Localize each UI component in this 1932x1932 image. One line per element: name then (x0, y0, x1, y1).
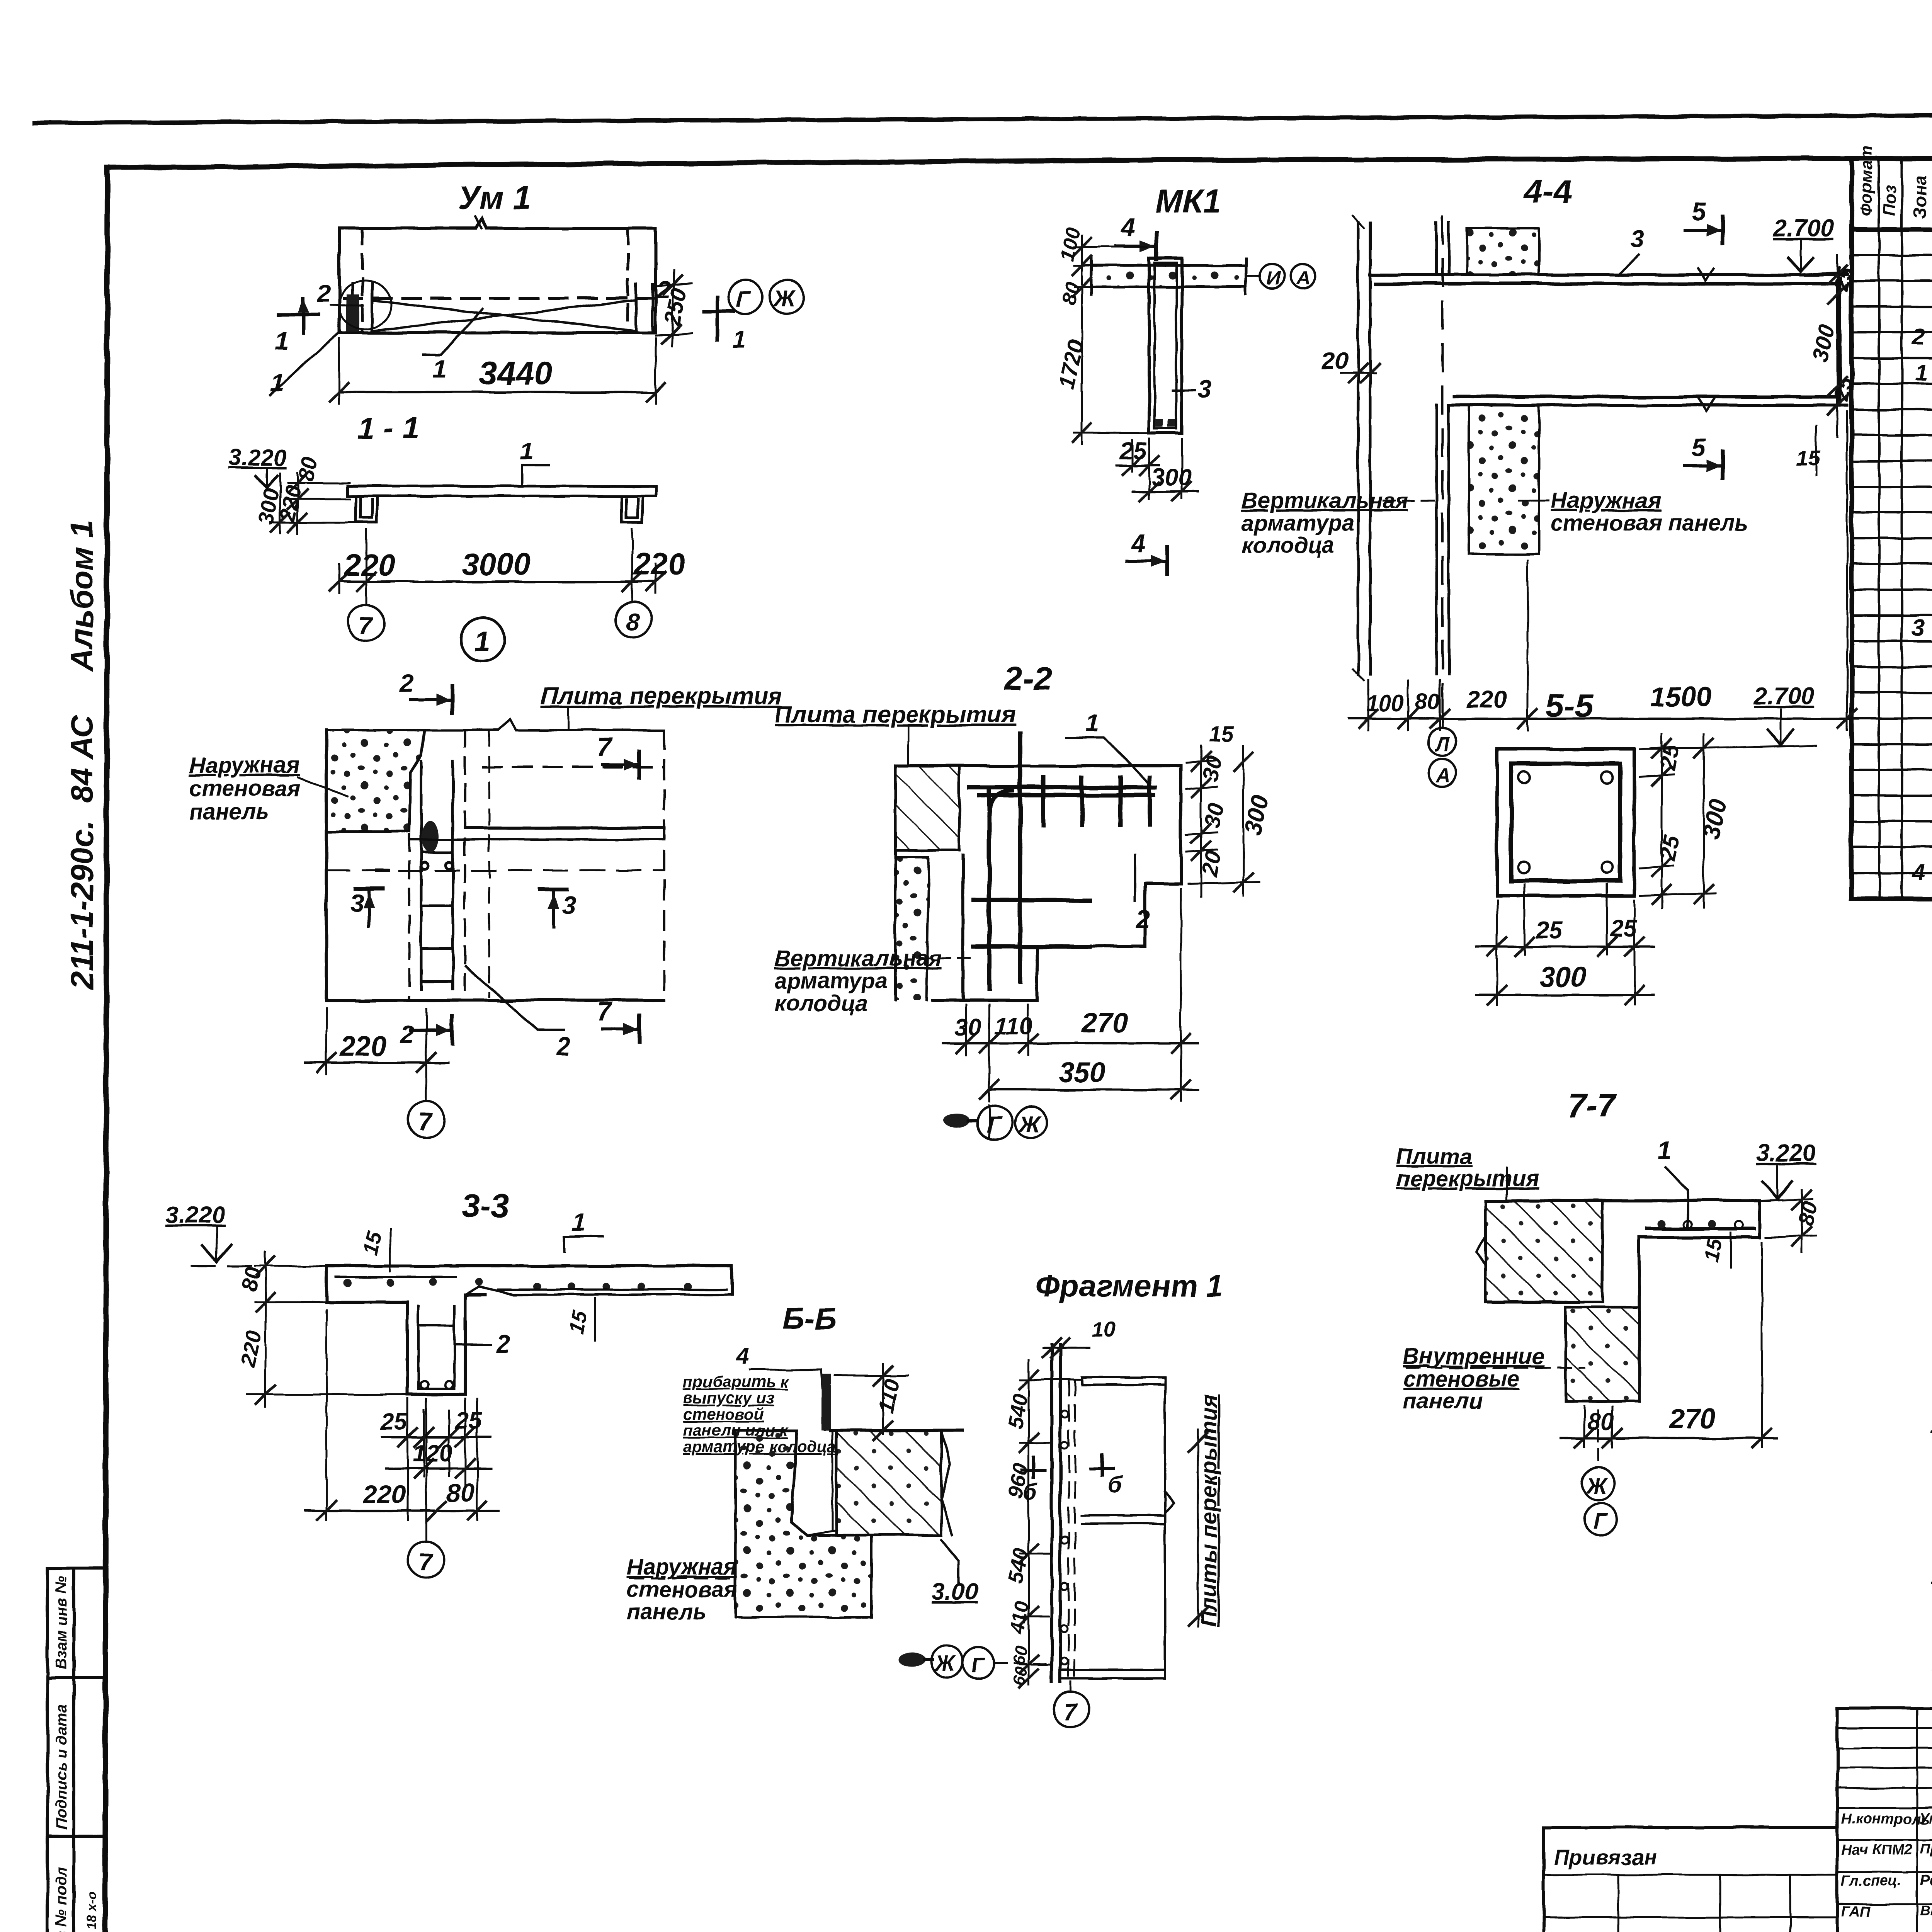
node detail plan outline (327, 719, 664, 1000)
section 1-1 left dims (270, 473, 359, 533)
svg-text:А: А (1296, 267, 1311, 289)
svg-text:Гл.спец.: Гл.спец. (1841, 1873, 1902, 1889)
section 2-2 dims bottom (966, 889, 1181, 1101)
svg-text:80: 80 (446, 1478, 475, 1507)
section 1-1 leader 1 (522, 466, 549, 486)
fragment 1 grid circle 7 (1070, 1682, 1072, 1692)
svg-text:Вертикальная: Вертикальная (775, 946, 942, 971)
svg-text:10: 10 (1092, 1317, 1116, 1342)
svg-text:7: 7 (418, 1548, 434, 1576)
svg-text:7: 7 (597, 732, 612, 761)
svg-text:2: 2 (1912, 324, 1925, 350)
node detail channel rebar ladder (421, 761, 453, 989)
section 4-4 console rebar (1376, 278, 1840, 402)
svg-text:3: 3 (562, 891, 577, 919)
node detail grid circle 7 (408, 1101, 444, 1138)
svg-text:2: 2 (496, 1330, 510, 1358)
svg-text:Плиты перекрытия: Плиты перекрытия (1196, 1395, 1221, 1627)
view MK1 dims bottom (1132, 439, 1182, 498)
svg-text:3000: 3000 (462, 547, 531, 581)
svg-text:А: А (1435, 764, 1451, 787)
svg-text:220: 220 (1466, 687, 1506, 713)
svg-text:1. Монолитный участок УМ 1 и: 1. Монолитный участок УМ 1 и монолитную … (1930, 1410, 1932, 1439)
view Um1 title leader (475, 216, 481, 228)
section 4-4 upper wall panel stipple (1467, 228, 1539, 275)
section 2-2 rebar bars (970, 734, 1155, 989)
node mark circle 1 (461, 618, 505, 661)
svg-text:Г: Г (1593, 1509, 1608, 1534)
svg-text:Г: Г (736, 286, 752, 312)
section 5-5 corner bar circles (1519, 772, 1530, 783)
svg-text:1720: 1720 (1054, 337, 1088, 391)
svg-text:3: 3 (350, 889, 364, 917)
svg-text:б: б (1108, 1472, 1123, 1497)
section 3-3 left dims (247, 1252, 406, 1406)
svg-text:220: 220 (339, 1031, 386, 1062)
svg-text:2.700: 2.700 (1773, 215, 1833, 242)
grid circle G (728, 280, 762, 314)
frame border left (105, 168, 107, 1932)
svg-text:4: 4 (1131, 529, 1146, 557)
svg-text:3: 3 (1198, 375, 1212, 403)
notes text block (1930, 1410, 1932, 1679)
view Um1 left anchor blob (346, 294, 359, 332)
svg-text:панель: панель (189, 799, 269, 824)
view Um1 cross diagonals (339, 228, 634, 333)
svg-text:15: 15 (1699, 1236, 1727, 1264)
svg-text:20: 20 (1197, 849, 1226, 879)
svg-text:колодца: колодца (1242, 533, 1334, 558)
svg-text:МК1: МК1 (1155, 183, 1221, 220)
svg-text:стеновая панель: стеновая панель (1551, 510, 1748, 536)
section 3-3 web rebar (418, 1306, 454, 1389)
svg-text:2: 2 (316, 280, 331, 308)
section B-B joint gap lines (808, 1430, 837, 1535)
svg-text:7: 7 (418, 1108, 433, 1136)
svg-text:2: 2 (399, 1020, 414, 1049)
svg-text:панель: панель (627, 1599, 706, 1624)
section 7-7 dim 80 right (1766, 1190, 1816, 1252)
section 4-4 break marks (1698, 269, 1714, 281)
svg-text:стеновая: стеновая (627, 1577, 737, 1602)
svg-text:Инв № подл: Инв № подл (53, 1867, 70, 1932)
svg-text:Зона: Зона (1910, 175, 1930, 218)
svg-text:5-5: 5-5 (1546, 687, 1594, 724)
svg-text:3: 3 (1630, 224, 1644, 253)
svg-text:Ж: Ж (772, 286, 796, 311)
svg-text:100: 100 (1056, 225, 1085, 263)
svg-text:80: 80 (294, 455, 322, 483)
svg-text:15: 15 (1209, 722, 1234, 747)
view MK1 grid circles I A (1246, 276, 1260, 277)
svg-text:колодца: колодца (775, 991, 867, 1016)
svg-text:350: 350 (1059, 1057, 1105, 1088)
svg-text:арматура: арматура (1242, 510, 1354, 536)
section 1-1 left rib (356, 496, 377, 522)
svg-text:270: 270 (1081, 1008, 1128, 1039)
section 3-3 top rebar dots (344, 1278, 692, 1291)
svg-text:80: 80 (1058, 280, 1084, 306)
svg-text:Привязан: Привязан (1553, 1845, 1657, 1869)
svg-text:Выполнил: Выполнил (1920, 1903, 1932, 1919)
section 2-2 outline (895, 766, 1181, 1000)
section 7-7 grid circles Zh G (1597, 1410, 1599, 1464)
svg-text:4: 4 (1912, 859, 1925, 885)
svg-text:Наружная: Наружная (189, 753, 299, 778)
svg-text:7: 7 (1063, 1699, 1078, 1726)
svg-text:1: 1 (520, 437, 534, 465)
section 7-7 rebar with dots (1647, 1227, 1754, 1231)
view Um1 hidden chord dashed (344, 297, 654, 300)
svg-text:300: 300 (253, 486, 284, 526)
view Um1 section mark 1 left (279, 298, 318, 333)
node detail axis dashed (327, 870, 664, 872)
section 2-2 hatched slab block (895, 766, 959, 850)
svg-text:2: 2 (1135, 904, 1150, 933)
svg-text:2-2: 2-2 (1004, 660, 1052, 697)
svg-text:5: 5 (1692, 433, 1706, 461)
section 2-2 dims right (1186, 746, 1260, 896)
svg-text:стеновые: стеновые (1403, 1366, 1520, 1391)
view MK1 dims left (1074, 236, 1147, 444)
fragment 1 grid circles Zh G (931, 1645, 963, 1677)
node detail slab edge lines right (409, 828, 664, 839)
svg-text:80: 80 (1587, 1408, 1614, 1435)
section 1-1 right rib (622, 496, 643, 522)
svg-text:25: 25 (1119, 438, 1147, 464)
svg-text:120: 120 (413, 1440, 452, 1467)
section 4-4 grid circles L A (1442, 684, 1444, 728)
svg-text:Плита перекрытия: Плита перекрытия (775, 701, 1016, 728)
paper top edge line (35, 112, 1932, 123)
svg-text:Л: Л (1434, 733, 1450, 756)
svg-text:Наружная: Наружная (1551, 488, 1661, 513)
svg-text:панели: панели (1403, 1389, 1483, 1414)
specification table grid (1852, 158, 1932, 899)
svg-text:1 - 1: 1 - 1 (357, 411, 419, 445)
svg-text:15: 15 (565, 1308, 592, 1336)
svg-text:7-7: 7-7 (1568, 1087, 1617, 1124)
svg-text:80: 80 (236, 1265, 265, 1293)
view Um1 leader 1 (423, 309, 482, 355)
svg-text:270: 270 (1668, 1403, 1716, 1434)
svg-text:220: 220 (235, 1328, 266, 1369)
view Um1 end zone verticals left (352, 228, 372, 333)
frame border top (107, 158, 1932, 168)
svg-text:арматура: арматура (775, 968, 888, 993)
svg-text:Нач КПМ2: Нач КПМ2 (1841, 1842, 1912, 1858)
svg-text:Фрагмент 1: Фрагмент 1 (1036, 1269, 1223, 1303)
section 7-7 monolithic outline (1485, 1201, 1760, 1401)
node detail hidden vertical dashed (488, 730, 490, 997)
svg-text:перекрытия: перекрытия (1396, 1166, 1539, 1191)
svg-text:1: 1 (1915, 360, 1927, 386)
svg-text:1: 1 (1658, 1136, 1672, 1165)
section 4-4 lower wall panel stipple (1469, 405, 1539, 554)
svg-text:1: 1 (275, 327, 289, 355)
node detail slab panel top-left (stipple) (327, 730, 424, 832)
section 2-2 blob arrow (943, 1114, 969, 1128)
section 4-4 dims right (1837, 255, 1838, 437)
svg-text:220: 220 (633, 547, 685, 581)
table row lines (1852, 255, 1932, 873)
svg-text:300: 300 (1540, 962, 1586, 993)
svg-text:1: 1 (1086, 709, 1100, 736)
svg-text:25: 25 (1655, 742, 1684, 772)
section 5-5 outer square (1497, 749, 1634, 896)
svg-text:Г: Г (971, 1653, 986, 1677)
svg-text:3.220: 3.220 (229, 445, 287, 471)
svg-text:100: 100 (1366, 691, 1404, 716)
svg-text:1: 1 (474, 626, 490, 657)
section 3-3 grid circle 7 (425, 1399, 427, 1541)
section 2-2 wall panel stipple below (895, 857, 929, 1000)
svg-text:Взам инв №: Взам инв № (53, 1576, 70, 1669)
section 4-4 wall face pair left (1352, 216, 1370, 680)
node detail dim 220 (326, 1009, 328, 1074)
section 2-2 grid circle Zh (1015, 1107, 1047, 1138)
fragment 1 slabs block (1060, 1378, 1165, 1679)
svg-text:т-п 18 х-о: т-п 18 х-о (84, 1891, 99, 1932)
section 5-5 dims right (1640, 734, 1716, 908)
node detail vertical joint channel dashed borders (409, 730, 465, 1000)
svg-text:Н.контроль: Н.контроль (1841, 1811, 1930, 1827)
svg-text:5: 5 (1692, 197, 1706, 226)
svg-text:220: 220 (343, 548, 395, 582)
svg-text:4: 4 (736, 1343, 749, 1369)
section 4-4 console band (1370, 275, 1847, 405)
section 2-2 leader 1 (1066, 737, 1151, 786)
svg-text:Поз: Поз (1880, 185, 1899, 216)
node detail rebar blob (422, 821, 439, 852)
section 5-5 dims bottom (1497, 885, 1634, 1005)
section 4-4 dims bottom (1368, 412, 1847, 730)
view Um1 section mark 1 right (704, 298, 734, 340)
svg-text:80: 80 (1793, 1199, 1822, 1228)
section 7-7 floor slab hatched (1485, 1201, 1602, 1302)
grid circle 7 (348, 605, 384, 641)
svg-text:4: 4 (1120, 213, 1135, 241)
node detail hidden slab dashed right (483, 730, 664, 1000)
view Um1 dim line 3440 (339, 391, 656, 393)
svg-text:Ж: Ж (1585, 1473, 1608, 1498)
node detail leader 2 (466, 966, 564, 1030)
section 3-3 slab outline (327, 1266, 732, 1395)
svg-text:1: 1 (433, 354, 447, 382)
section B-B blob arrow (899, 1653, 925, 1667)
section 3-3 leader 1 (564, 1236, 603, 1252)
fragment 1 section marks b (1022, 1469, 1045, 1472)
section 7-7 bottom dims (1584, 1242, 1762, 1447)
privyazan table (1544, 1828, 1837, 1932)
svg-text:7: 7 (597, 997, 612, 1026)
svg-text:ГАП: ГАП (1841, 1904, 1871, 1920)
svg-text:7: 7 (359, 611, 374, 639)
svg-text:2: 2 (556, 1032, 571, 1060)
section 4-4 wall face pair right (dashed joint) (1437, 223, 1449, 674)
section 3-3 bottom dims (327, 1310, 477, 1520)
svg-text:300: 300 (1807, 323, 1840, 364)
section 2-2 leader 2 (1134, 855, 1136, 900)
svg-text:25: 25 (380, 1408, 408, 1435)
svg-text:стеновой: стеновой (683, 1405, 764, 1423)
svg-text:Внутренние: Внутренние (1403, 1344, 1544, 1369)
view Um1 leader line lower-left (270, 333, 338, 395)
section B-B elevation 3.00 (941, 1540, 958, 1584)
section 7-7 wall panel hatched below (1566, 1307, 1639, 1401)
svg-text:2: 2 (399, 668, 414, 697)
svg-text:300: 300 (1240, 793, 1274, 838)
section 5-5 rebar cage square (1511, 764, 1620, 881)
svg-text:3.220: 3.220 (165, 1202, 225, 1228)
left margin strip boxes (48, 1568, 105, 1932)
svg-text:30: 30 (1197, 754, 1227, 784)
svg-text:Резник: Резник (1920, 1872, 1932, 1888)
svg-text:25: 25 (1536, 917, 1563, 944)
svg-text:220: 220 (362, 1480, 406, 1509)
section 3-3 leader 2 (456, 1344, 491, 1346)
section 2-2 axis line down (988, 1105, 990, 1138)
view MK1 leader 3 (1173, 389, 1195, 391)
fragment 1 wall rebar dots (1061, 1411, 1068, 1665)
section 1-1 bottom dim line (339, 580, 656, 583)
svg-text:б: б (1023, 1479, 1038, 1504)
svg-text:Формат: Формат (1857, 145, 1876, 216)
svg-text:30: 30 (1199, 800, 1229, 830)
section 2-2 grid circle G (978, 1105, 1012, 1140)
svg-text:Прохоренко: Прохоренко (1920, 1841, 1932, 1857)
svg-text:110: 110 (994, 1013, 1032, 1039)
section 1-1 slab (348, 486, 656, 496)
svg-text:211-1-290с. 84 АС Альбом: 211-1-290с. 84 АС Альбом 1 (65, 520, 100, 990)
svg-text:300: 300 (1151, 464, 1191, 491)
svg-text:И: И (1267, 267, 1281, 289)
svg-text:60: 60 (1009, 1665, 1031, 1687)
view MK1 slab band stipple (1091, 265, 1246, 287)
section 2-2 corner bend radius (989, 791, 1012, 815)
svg-text:2.700: 2.700 (1754, 683, 1814, 709)
svg-text:20: 20 (1321, 348, 1348, 374)
svg-text:1: 1 (572, 1208, 586, 1236)
svg-text:Ж: Ж (1018, 1111, 1042, 1137)
view MK1 slab band outline (1091, 258, 1246, 294)
svg-text:Ум 1: Ум 1 (458, 179, 531, 216)
svg-text:25: 25 (1655, 833, 1684, 863)
svg-text:Г: Г (986, 1112, 1002, 1138)
section B-B dim 110 (835, 1375, 908, 1377)
svg-text:30: 30 (954, 1014, 981, 1041)
view Um1 end zone verticals right (628, 228, 653, 333)
grid circle 8 (616, 602, 652, 638)
svg-text:прибарить к: прибарить к (683, 1372, 789, 1391)
svg-text:1: 1 (732, 325, 746, 353)
section B-B floor slab hatched (837, 1430, 941, 1535)
signature column scribbles (1841, 1810, 1932, 1932)
svg-text:3440: 3440 (479, 355, 552, 392)
svg-text:Плита: Плита (1396, 1144, 1472, 1169)
fragment 1 dim chain left (1028, 1360, 1030, 1685)
view Um1 detail circle on left end (339, 281, 391, 329)
svg-text:3: 3 (1912, 615, 1925, 641)
svg-text:3-3: 3-3 (462, 1188, 509, 1225)
view MK1 console box (1149, 259, 1182, 433)
svg-text:25: 25 (455, 1408, 482, 1434)
svg-text:8: 8 (626, 608, 640, 636)
svg-text:80: 80 (1415, 689, 1440, 714)
table data rows (1912, 230, 1932, 885)
svg-text:15: 15 (359, 1229, 386, 1257)
svg-text:Подпись и дата: Подпись и дата (53, 1704, 70, 1830)
svg-text:25: 25 (1610, 915, 1638, 942)
title block: change-table grid (1837, 1708, 1932, 1932)
svg-text:3.220: 3.220 (1756, 1140, 1816, 1167)
fragment 1 wall strip (1052, 1345, 1060, 1682)
view Um1 plan outline (339, 219, 656, 333)
svg-text:4-4: 4-4 (1524, 173, 1572, 210)
svg-text:Умрихин: Умрихин (1920, 1810, 1932, 1827)
svg-text:1500: 1500 (1650, 682, 1712, 713)
svg-text:Ж: Ж (934, 1651, 956, 1675)
svg-text:выпуску из: выпуску из (683, 1389, 775, 1407)
grid circle Zh (770, 280, 804, 314)
svg-text:3.00: 3.00 (931, 1578, 978, 1605)
section B-B wall panel stipple (735, 1430, 871, 1617)
svg-text:стеновая: стеновая (189, 776, 300, 801)
section B-B anchor plate (821, 1374, 831, 1430)
svg-text:Наружная: Наружная (627, 1554, 737, 1580)
svg-text:Б-Б: Б-Б (782, 1301, 837, 1336)
svg-text:Плита перекрытия: Плита перекрытия (541, 683, 782, 709)
